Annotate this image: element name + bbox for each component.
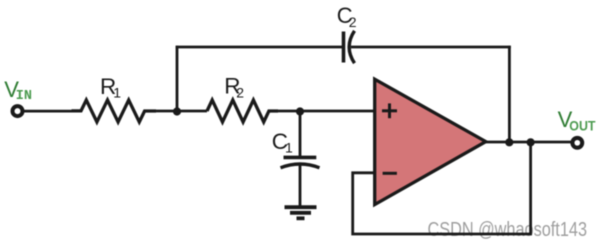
wire node A to R2 (177, 110, 207, 113)
node D junction (loop feedback) (527, 138, 535, 146)
node C junction (C2 feedback) (505, 138, 513, 146)
wire node B to op-amp plus input (300, 110, 375, 113)
wire op-amp output (486, 141, 571, 144)
label R2 (224, 74, 244, 101)
svg-text:OUT: OUT (569, 119, 596, 134)
wire right riser down to output node (508, 46, 511, 142)
label VOUT (558, 107, 597, 134)
capacitor C1 (281, 157, 320, 167)
svg-text:CSDN @whaosoft143: CSDN @whaosoft143 (428, 219, 588, 241)
label C2 (337, 3, 357, 30)
wire feedback loop (353, 142, 531, 234)
svg-text:1: 1 (285, 139, 293, 155)
svg-text:1: 1 (113, 85, 121, 101)
label R1 (100, 74, 121, 101)
capacitor C2 (344, 31, 355, 63)
node VIN terminal (13, 106, 23, 116)
wire C1 to ground (299, 165, 302, 207)
label C1 (272, 129, 293, 155)
op-amp minus sign (383, 172, 397, 175)
wire R2 to node B (278, 110, 300, 113)
wire R1 to node A (156, 110, 177, 113)
resistor R2 (207, 100, 278, 122)
op-amp U1 (375, 79, 486, 204)
label VIN (4, 77, 32, 104)
node A junction (173, 107, 181, 115)
svg-text:IN: IN (16, 89, 32, 104)
wire VIN to R1 (24, 110, 73, 113)
wire C2 to right riser (351, 46, 511, 49)
ground (285, 207, 317, 218)
op-amp plus sign (382, 103, 397, 118)
wire node B down to C1 (299, 111, 302, 157)
wire top rail left to C2 (176, 46, 344, 49)
node B junction (296, 107, 304, 115)
wire node A riser to top (176, 46, 179, 111)
resistor R1 (72, 100, 157, 122)
svg-text:2: 2 (236, 84, 244, 100)
svg-text:2: 2 (349, 14, 357, 30)
node VOUT terminal (572, 138, 582, 148)
